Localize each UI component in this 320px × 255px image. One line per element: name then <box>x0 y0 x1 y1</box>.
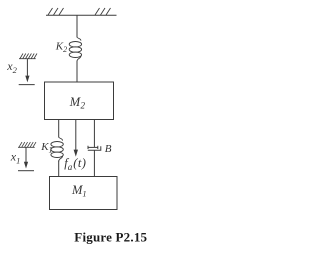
wire: spring K1 to mass M1 <box>58 161 60 177</box>
svg-text:M2: M2 <box>69 95 86 111</box>
svg-text:B: B <box>105 143 112 155</box>
ceiling hatch right group <box>95 8 111 15</box>
wire: ceiling to spring K2 <box>76 15 78 37</box>
spring K1 <box>51 137 63 162</box>
x1 datum tick at M1 level <box>18 170 34 172</box>
svg-text:x2: x2 <box>6 59 17 75</box>
svg-text:K2: K2 <box>55 40 67 54</box>
damper wire from M2 <box>93 120 95 148</box>
damper B piston <box>88 146 98 148</box>
mass M2 <box>45 82 114 120</box>
mass M1 <box>50 177 118 210</box>
x1 arrow <box>25 147 27 162</box>
svg-text:M1: M1 <box>71 183 87 199</box>
wire: spring K2 to mass M2 <box>76 61 78 83</box>
svg-text:fa(t): fa(t) <box>64 156 86 172</box>
force arrow fa(t) <box>75 120 77 151</box>
x1 datum hatch <box>18 142 36 147</box>
spring K1 wire from M2 <box>58 120 60 138</box>
spring K2 <box>69 37 81 62</box>
x2 datum tick at M2 level <box>19 84 35 86</box>
ceiling line <box>46 14 117 16</box>
svg-text:K1: K1 <box>40 141 52 155</box>
x2 arrow <box>26 59 28 76</box>
svg-text:Figure P2.15: Figure P2.15 <box>74 230 147 245</box>
damper B cup <box>88 146 101 150</box>
x2 datum hatch <box>19 54 37 59</box>
svg-text:x1: x1 <box>10 150 21 166</box>
ceiling hatch left group <box>48 8 64 15</box>
wire: damper to mass M1 <box>93 150 95 176</box>
